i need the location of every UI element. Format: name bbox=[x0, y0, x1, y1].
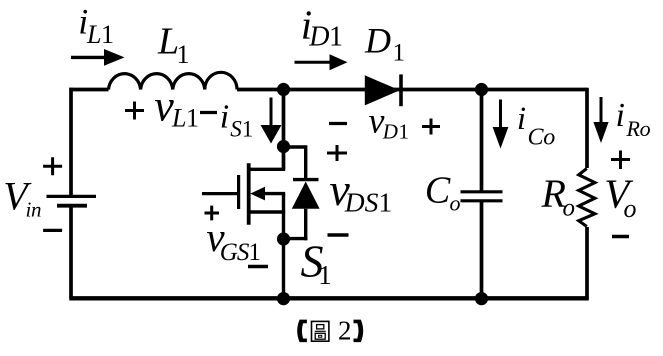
wire Co branch upper bbox=[480, 90, 484, 192]
wire left vertical upper bbox=[69, 88, 73, 195]
wire right vertical upper bbox=[585, 88, 589, 168]
current arrow iD1 bbox=[295, 54, 348, 70]
svg-text:L1: L1 bbox=[171, 104, 198, 133]
gate lead bbox=[202, 192, 237, 195]
svg-text:L1: L1 bbox=[86, 20, 113, 49]
svg-text:1: 1 bbox=[393, 39, 406, 66]
wire top horizontal (inductor to right corner) bbox=[237, 88, 587, 92]
svg-text:GS1: GS1 bbox=[220, 239, 260, 266]
wire switch branch upper (node to drain) bbox=[282, 90, 286, 170]
node A (top wire / switch branch) bbox=[277, 83, 290, 96]
label iL1 bbox=[78, 2, 113, 50]
wire right vertical lower bbox=[585, 227, 589, 299]
label + of Vo bbox=[611, 151, 630, 170]
body diode triangle bbox=[292, 182, 320, 209]
label iCo bbox=[517, 101, 555, 151]
label Vo bbox=[604, 171, 636, 223]
MOSFET body arrow bbox=[250, 187, 265, 201]
channel bar bbox=[247, 163, 251, 224]
svg-text:D: D bbox=[364, 20, 391, 60]
voltage source Vin (battery) bbox=[47, 196, 97, 205]
svg-text:o: o bbox=[624, 194, 637, 223]
label Co bbox=[425, 170, 461, 216]
node drain junction bbox=[277, 140, 290, 153]
glyph tu (figure) bbox=[312, 321, 329, 341]
svg-text:2: 2 bbox=[338, 315, 352, 345]
svg-text:DS1: DS1 bbox=[344, 187, 392, 218]
inductor L1 bbox=[109, 72, 238, 89]
label - vD1 + bbox=[329, 100, 440, 143]
label + vDS1 - bbox=[327, 145, 392, 235]
wire left vertical lower bbox=[69, 206, 73, 299]
transistor S1 (MOSFET) bbox=[202, 163, 285, 240]
capacitor Co plates bbox=[461, 192, 503, 201]
svg-text:S1: S1 bbox=[230, 117, 253, 142]
current arrow iRo bbox=[593, 97, 608, 143]
svg-text:in: in bbox=[26, 198, 42, 222]
label + vL1 - bbox=[125, 82, 217, 133]
left lenticular bracket bbox=[297, 320, 307, 343]
body vertical to source node bbox=[282, 194, 285, 240]
wire diode branch top bbox=[284, 145, 306, 148]
label iD1 bbox=[301, 2, 343, 53]
label D1 bbox=[364, 20, 405, 66]
node bottom Co branch bbox=[475, 292, 488, 305]
svg-text:D1: D1 bbox=[382, 120, 410, 144]
wire switch branch lower (source node to bottom) bbox=[282, 239, 285, 299]
wire Co branch lower bbox=[480, 201, 484, 299]
node bottom switch branch bbox=[277, 292, 290, 305]
body diode of S1 bbox=[284, 145, 320, 240]
diode D1 bbox=[365, 74, 401, 106]
svg-text:i: i bbox=[220, 98, 229, 135]
current arrow iS1 bbox=[261, 98, 282, 144]
label vGS1 bbox=[205, 206, 269, 267]
svg-text:i: i bbox=[517, 101, 526, 137]
body diode cathode bar bbox=[293, 178, 319, 181]
label Vin bbox=[3, 173, 41, 221]
svg-text:D1: D1 bbox=[308, 22, 342, 53]
svg-text:o: o bbox=[450, 191, 461, 216]
gate bar bbox=[237, 175, 240, 209]
body lead bbox=[258, 192, 285, 195]
current arrow iCo bbox=[493, 100, 509, 149]
wire bottom horizontal bbox=[69, 296, 589, 300]
label - of Vo bbox=[612, 235, 629, 238]
wire diode branch right vertical lower bbox=[304, 209, 307, 241]
label Ro bbox=[541, 171, 576, 222]
svg-text:Co: Co bbox=[528, 125, 556, 151]
wire top-left horizontal bbox=[69, 88, 108, 92]
right lenticular bracket bbox=[354, 320, 364, 343]
svg-text:i: i bbox=[616, 97, 625, 134]
wire diode branch bottom bbox=[284, 237, 308, 240]
label + of Vin bbox=[43, 157, 62, 175]
svg-text:1: 1 bbox=[318, 260, 332, 290]
label L1 bbox=[157, 21, 190, 69]
wire diode branch right vertical upper bbox=[304, 145, 307, 180]
resistor Ro zigzag bbox=[579, 169, 595, 227]
source lead bbox=[249, 210, 286, 213]
node B (top wire / Co branch) bbox=[475, 83, 488, 96]
svg-text:1: 1 bbox=[177, 40, 190, 69]
drain lead bbox=[249, 168, 286, 171]
label - of Vin bbox=[43, 229, 62, 232]
caption figure 2 bbox=[297, 315, 363, 345]
svg-text:Ro: Ro bbox=[626, 116, 651, 141]
label iRo bbox=[616, 97, 651, 141]
svg-text:o: o bbox=[563, 194, 576, 221]
svg-text:C: C bbox=[425, 170, 451, 212]
label S1 bbox=[301, 236, 332, 291]
current arrow iL1 bbox=[71, 49, 125, 66]
label iS1 bbox=[220, 98, 253, 141]
node source junction bbox=[277, 232, 290, 245]
